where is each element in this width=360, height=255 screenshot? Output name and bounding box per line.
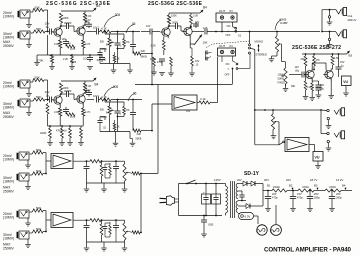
svg-text:VU: VU bbox=[315, 156, 320, 160]
svg-text:(18MV): (18MV) bbox=[3, 36, 14, 40]
svg-text:2SC-536G 2SC-536E: 2SC-536G 2SC-536E bbox=[46, 1, 111, 7]
svg-text:10V: 10V bbox=[146, 25, 151, 28]
svg-text:CONTROL AMPLIFIER - PA940: CONTROL AMPLIFIER - PA940 bbox=[264, 247, 352, 254]
svg-text:20K: 20K bbox=[137, 132, 142, 136]
svg-text:1.3K: 1.3K bbox=[86, 14, 92, 18]
svg-text:100K: 100K bbox=[171, 15, 177, 18]
svg-text:B3: B3 bbox=[314, 184, 318, 188]
svg-text:4.7K: 4.7K bbox=[70, 47, 76, 51]
svg-text:SD-1Y: SD-1Y bbox=[244, 171, 260, 177]
svg-text:250MV: 250MV bbox=[3, 115, 14, 119]
svg-text:4.7K: 4.7K bbox=[85, 42, 91, 46]
svg-text:1K: 1K bbox=[117, 126, 120, 129]
svg-text:(18MV): (18MV) bbox=[3, 180, 14, 184]
svg-text:200mV: 200mV bbox=[348, 18, 357, 22]
svg-text:1μ5: 1μ5 bbox=[203, 26, 208, 30]
svg-text:(10MV): (10MV) bbox=[3, 216, 14, 220]
svg-text:2.2K: 2.2K bbox=[151, 44, 157, 48]
svg-text:47K: 47K bbox=[316, 59, 321, 62]
svg-text:OFF: OFF bbox=[225, 73, 230, 76]
svg-text:280μ: 280μ bbox=[314, 196, 320, 200]
svg-text:OUT: OUT bbox=[219, 44, 226, 48]
svg-text:50K: 50K bbox=[35, 76, 40, 80]
svg-text:50K: 50K bbox=[36, 169, 41, 173]
svg-text:10V1: 10V1 bbox=[93, 95, 99, 98]
svg-text:10V: 10V bbox=[86, 18, 91, 22]
svg-text:1K: 1K bbox=[64, 130, 67, 133]
svg-text:2.2K: 2.2K bbox=[63, 58, 68, 61]
svg-text:50K: 50K bbox=[36, 148, 41, 152]
svg-text:3.3K: 3.3K bbox=[193, 15, 198, 18]
svg-text:B4: B4 bbox=[342, 184, 346, 188]
svg-text:56KB: 56KB bbox=[141, 56, 147, 59]
svg-text:50K: 50K bbox=[36, 95, 41, 99]
svg-text:FIXED: FIXED bbox=[278, 81, 286, 85]
svg-text:1.3K: 1.3K bbox=[307, 86, 312, 89]
svg-text:3.9K: 3.9K bbox=[54, 42, 60, 46]
svg-text:10V1: 10V1 bbox=[93, 27, 99, 30]
svg-text:2SC-536G 2SC-536E: 2SC-536G 2SC-536E bbox=[148, 1, 203, 7]
svg-text:10V: 10V bbox=[83, 58, 88, 61]
svg-text:50KB: 50KB bbox=[278, 77, 285, 81]
svg-text:1K: 1K bbox=[117, 58, 120, 61]
svg-text:50K: 50K bbox=[36, 227, 41, 231]
svg-text:470μ: 470μ bbox=[272, 196, 278, 200]
svg-text:47K: 47K bbox=[126, 42, 131, 44]
svg-text:50K: 50K bbox=[100, 110, 105, 112]
svg-text:300P: 300P bbox=[172, 22, 178, 25]
svg-text:10V: 10V bbox=[62, 38, 67, 41]
svg-text:20V: 20V bbox=[237, 178, 242, 182]
svg-text:.005: .005 bbox=[112, 85, 118, 89]
svg-text:30μ: 30μ bbox=[295, 70, 300, 73]
svg-text:270K: 270K bbox=[37, 59, 44, 63]
svg-text:.05: .05 bbox=[131, 22, 136, 26]
svg-text:(10MV): (10MV) bbox=[3, 158, 14, 162]
svg-text:150Ω: 150Ω bbox=[273, 185, 280, 189]
svg-text:4.7K: 4.7K bbox=[85, 110, 91, 114]
svg-text:4.7K: 4.7K bbox=[70, 115, 76, 119]
svg-text:1μ: 1μ bbox=[46, 94, 50, 98]
svg-text:B4: B4 bbox=[95, 83, 99, 87]
svg-text:.05: .05 bbox=[132, 92, 137, 96]
svg-text:22V: 22V bbox=[286, 178, 291, 182]
svg-text:50K: 50K bbox=[35, 6, 40, 10]
svg-text:3.9K: 3.9K bbox=[54, 110, 60, 114]
svg-text:300PF: 300PF bbox=[64, 89, 72, 93]
svg-text:100K: 100K bbox=[63, 16, 69, 20]
svg-text:50K: 50K bbox=[36, 206, 41, 210]
svg-text:13.2V: 13.2V bbox=[336, 178, 343, 182]
svg-text:22K: 22K bbox=[141, 49, 146, 53]
svg-text:280μ: 280μ bbox=[336, 196, 342, 200]
svg-text:(10MV): (10MV) bbox=[3, 85, 14, 89]
svg-text:.005: .005 bbox=[114, 13, 120, 17]
svg-text:B1: B1 bbox=[267, 184, 271, 188]
svg-text:ON: ON bbox=[227, 25, 231, 28]
svg-text:470μ: 470μ bbox=[297, 196, 303, 200]
svg-text:IN: IN bbox=[230, 44, 233, 48]
svg-text:250MV: 250MV bbox=[3, 44, 14, 48]
svg-text:40KB: 40KB bbox=[279, 18, 286, 22]
svg-text:.02: .02 bbox=[103, 59, 107, 62]
svg-text:2SC-536E 2SB-272: 2SC-536E 2SB-272 bbox=[292, 45, 341, 51]
svg-text:MONO: MONO bbox=[255, 40, 265, 44]
svg-text:250MV: 250MV bbox=[3, 190, 14, 194]
svg-text:1μ: 1μ bbox=[46, 25, 50, 29]
svg-text:10V: 10V bbox=[186, 110, 191, 113]
svg-text:B3: B3 bbox=[349, 54, 353, 58]
svg-text:4.7K: 4.7K bbox=[101, 27, 107, 31]
svg-text:250MV: 250MV bbox=[3, 247, 14, 251]
svg-text:S1: S1 bbox=[238, 34, 242, 38]
svg-text:B2: B2 bbox=[289, 184, 293, 188]
svg-text:30μ: 30μ bbox=[320, 88, 325, 91]
svg-text:25V: 25V bbox=[336, 192, 341, 196]
svg-text:10V: 10V bbox=[86, 88, 91, 92]
svg-text:OFF: OFF bbox=[226, 34, 231, 37]
svg-text:18.7V: 18.7V bbox=[310, 178, 317, 182]
svg-text:20V: 20V bbox=[272, 192, 277, 196]
svg-text:ON: ON bbox=[226, 63, 230, 66]
svg-text:Ω MBP: Ω MBP bbox=[280, 22, 288, 25]
svg-text:OUT: OUT bbox=[219, 9, 226, 13]
svg-text:10K: 10K bbox=[203, 41, 208, 45]
svg-text:300PF: 300PF bbox=[64, 21, 72, 25]
svg-text:39K: 39K bbox=[291, 85, 296, 88]
svg-text:(10MV): (10MV) bbox=[3, 15, 14, 19]
svg-text:.02: .02 bbox=[103, 127, 107, 130]
svg-text:IN: IN bbox=[230, 9, 233, 13]
svg-text:.005: .005 bbox=[208, 223, 214, 227]
svg-text:B4: B4 bbox=[96, 4, 100, 8]
svg-text:50KB: 50KB bbox=[136, 138, 142, 141]
svg-text:220K: 220K bbox=[40, 131, 47, 135]
svg-text:470Ω: 470Ω bbox=[302, 185, 309, 189]
svg-text:VU: VU bbox=[343, 80, 348, 84]
svg-text:15V: 15V bbox=[297, 192, 302, 196]
svg-text:20V: 20V bbox=[264, 178, 269, 182]
svg-text:50K: 50K bbox=[36, 27, 41, 31]
svg-text:(18MV): (18MV) bbox=[3, 106, 14, 110]
svg-text:3.1K: 3.1K bbox=[200, 97, 206, 101]
svg-text:115V: 115V bbox=[214, 178, 221, 182]
svg-text:6.3V: 6.3V bbox=[245, 215, 251, 219]
svg-text:47K: 47K bbox=[126, 110, 131, 112]
svg-text:50K: 50K bbox=[100, 42, 105, 44]
svg-text:25V: 25V bbox=[314, 192, 319, 196]
svg-text:STEREO: STEREO bbox=[256, 53, 268, 57]
svg-text:B4: B4 bbox=[203, 6, 207, 10]
svg-text:470Ω: 470Ω bbox=[329, 185, 336, 189]
svg-text:1.3K: 1.3K bbox=[86, 84, 92, 88]
svg-text:20K: 20K bbox=[301, 58, 306, 61]
svg-text:(18MV): (18MV) bbox=[3, 237, 14, 241]
